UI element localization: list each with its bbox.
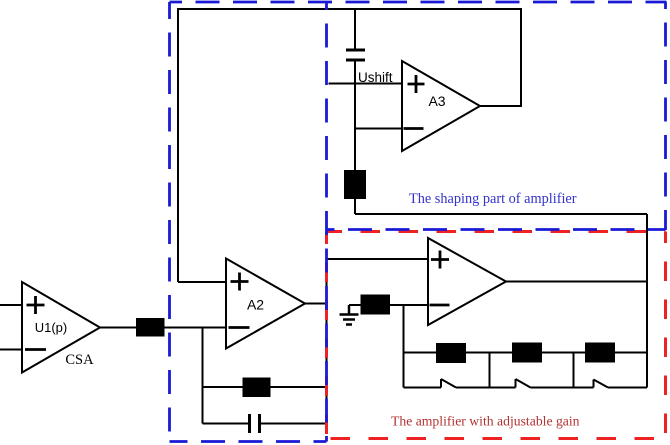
wire A3 output horizontal	[480, 105, 522, 107]
wire A2 plus input	[178, 281, 226, 283]
wire Ushift input to A3 plus	[329, 83, 403, 85]
resistor R3 (A2 feedback)	[243, 378, 271, 398]
wire Ushift node vertical	[354, 60, 356, 170]
op-amp U1(p) CSA	[22, 282, 100, 373]
switch S2	[515, 379, 517, 388]
op-amp A3	[402, 61, 480, 151]
svg-text:The shaping part of amplifier: The shaping part of amplifier	[409, 191, 577, 207]
wire A3 minus input	[355, 128, 402, 130]
wire A3 output vertical riser	[520, 8, 522, 106]
resistor R5	[436, 343, 466, 363]
switch S1	[440, 379, 442, 388]
op-amp U2 (adjustable gain)	[428, 238, 506, 325]
svg-text:U1(p): U1(p)	[35, 320, 68, 335]
wire R2 to A2 minus input	[165, 327, 227, 329]
wire below R1	[354, 199, 356, 214]
wire switch row segment 1	[404, 387, 442, 389]
op-amp A2	[226, 259, 305, 349]
wire CSA plus input stub	[0, 304, 22, 306]
svg-text:Ushift: Ushift	[358, 70, 393, 85]
blue dashed box: shaping part	[170, 2, 667, 442]
resistor R7	[585, 343, 615, 363]
svg-text:CSA: CSA	[65, 352, 94, 368]
wire CSA minus input stub	[0, 349, 22, 351]
wire switch row segment 2	[456, 387, 516, 389]
resistor R2 (CSA to A2)	[136, 318, 165, 337]
wire gain network left rail	[403, 305, 405, 388]
wire left vertical drop to A2 plus input	[177, 8, 179, 282]
resistor R6	[512, 343, 542, 363]
svg-text:A3: A3	[428, 93, 445, 109]
resistor R4 (U2 minus input)	[361, 295, 391, 315]
wire right rail	[646, 214, 648, 388]
wire A2 feedback capacitor branch left	[203, 423, 250, 425]
wire A2 output node column	[326, 259, 328, 424]
wire U2 output	[506, 281, 647, 283]
wire A2 feedback capacitor branch right	[260, 423, 327, 425]
wire A2 output	[305, 303, 327, 305]
wire switch row segment 4	[608, 387, 647, 389]
resistor R1 (vertical, Ushift node)	[344, 170, 366, 199]
wire divider 1	[489, 353, 491, 388]
wire A2 feedback left column	[202, 328, 204, 424]
wire CSA output	[100, 327, 136, 329]
wire shaping output bus	[355, 213, 647, 215]
switch S3	[593, 380, 595, 388]
wire capacitor top lead	[354, 9, 356, 50]
wire switch row segment 3	[531, 387, 594, 389]
wire divider 2	[573, 353, 575, 388]
capacitor C2 (A2 feedback)	[248, 414, 251, 433]
red dashed box: amplifier with adjustable gain	[327, 232, 666, 439]
wire U2 plus input	[327, 258, 429, 260]
wire A2 feedback resistor branch	[203, 386, 327, 388]
wire top feedback bus	[177, 8, 521, 10]
svg-text:A2: A2	[247, 297, 264, 313]
ground	[340, 305, 359, 325]
wire U2 minus input	[349, 304, 428, 306]
svg-text:The amplifier with adjustable: The amplifier with adjustable gain	[391, 414, 580, 429]
wire gain network resistor row	[404, 352, 648, 354]
capacitor C1 (Ushift decoupling)	[346, 49, 365, 52]
